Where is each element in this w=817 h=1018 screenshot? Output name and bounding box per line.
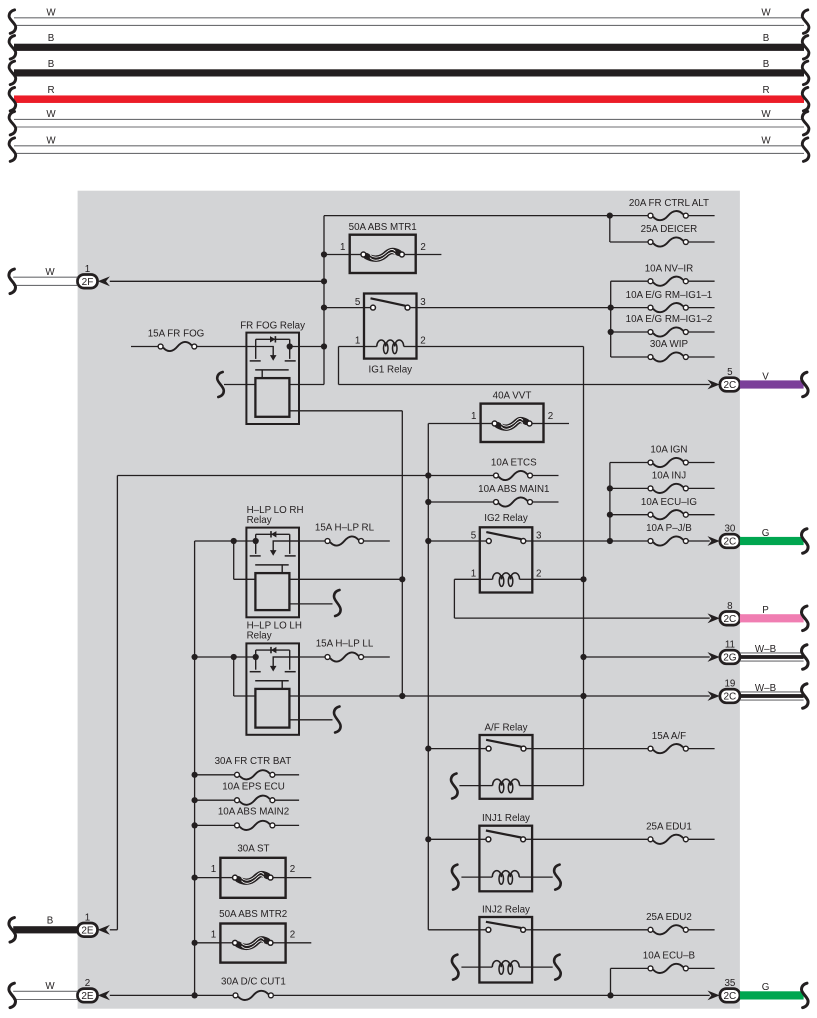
svg-text:B: B bbox=[47, 916, 54, 927]
svg-text:2C: 2C bbox=[724, 614, 737, 625]
svg-text:W–B: W–B bbox=[755, 683, 777, 694]
svg-text:15A FR FOG: 15A FR FOG bbox=[148, 329, 205, 340]
svg-text:R: R bbox=[762, 85, 769, 96]
svg-text:15A H–LP RL: 15A H–LP RL bbox=[315, 523, 375, 534]
svg-text:P: P bbox=[762, 605, 769, 616]
svg-text:50A ABS MTR2: 50A ABS MTR2 bbox=[219, 909, 287, 920]
svg-text:IG2 Relay: IG2 Relay bbox=[484, 513, 528, 524]
svg-text:30: 30 bbox=[724, 524, 735, 535]
svg-text:A/F Relay: A/F Relay bbox=[484, 722, 527, 733]
svg-text:W: W bbox=[761, 135, 771, 146]
svg-text:2: 2 bbox=[290, 929, 295, 940]
svg-text:W: W bbox=[45, 267, 55, 278]
svg-text:2F: 2F bbox=[82, 277, 94, 288]
svg-text:2C: 2C bbox=[724, 537, 737, 548]
svg-text:5: 5 bbox=[471, 531, 477, 542]
svg-text:10A P–J/B: 10A P–J/B bbox=[646, 523, 692, 534]
svg-text:Relay: Relay bbox=[247, 631, 272, 642]
svg-text:W: W bbox=[46, 135, 56, 146]
svg-text:2E: 2E bbox=[81, 991, 94, 1002]
svg-text:B: B bbox=[48, 33, 55, 44]
svg-text:V: V bbox=[762, 371, 769, 382]
svg-text:8: 8 bbox=[727, 601, 733, 612]
svg-text:1: 1 bbox=[211, 864, 216, 875]
svg-text:30A ST: 30A ST bbox=[237, 843, 269, 854]
svg-text:1: 1 bbox=[85, 264, 90, 275]
svg-text:B: B bbox=[763, 33, 770, 44]
svg-text:19: 19 bbox=[724, 679, 735, 690]
svg-text:W: W bbox=[45, 981, 55, 992]
svg-text:10A ECU–IG: 10A ECU–IG bbox=[641, 497, 697, 508]
svg-text:2: 2 bbox=[536, 569, 541, 580]
svg-text:W–B: W–B bbox=[755, 644, 777, 655]
svg-text:25A EDU2: 25A EDU2 bbox=[646, 912, 692, 923]
svg-text:10A EPS ECU: 10A EPS ECU bbox=[222, 781, 285, 792]
svg-text:2G: 2G bbox=[723, 653, 737, 664]
svg-text:30A FR CTR BAT: 30A FR CTR BAT bbox=[215, 756, 292, 767]
svg-text:G: G bbox=[762, 528, 770, 539]
svg-text:10A E/G RM–IG1–1: 10A E/G RM–IG1–1 bbox=[626, 290, 713, 301]
svg-text:W: W bbox=[761, 7, 771, 18]
svg-text:11: 11 bbox=[725, 640, 735, 651]
svg-text:R: R bbox=[47, 85, 54, 96]
svg-text:1: 1 bbox=[211, 929, 216, 940]
svg-text:G: G bbox=[762, 982, 770, 993]
svg-text:2: 2 bbox=[420, 242, 425, 253]
svg-text:15A A/F: 15A A/F bbox=[652, 731, 686, 742]
svg-text:10A ABS MAIN2: 10A ABS MAIN2 bbox=[218, 807, 289, 818]
svg-text:35: 35 bbox=[724, 978, 735, 989]
svg-text:10A NV–IR: 10A NV–IR bbox=[645, 263, 693, 274]
svg-text:5: 5 bbox=[355, 297, 361, 308]
svg-text:3: 3 bbox=[420, 297, 426, 308]
svg-text:10A IGN: 10A IGN bbox=[650, 445, 687, 456]
svg-text:1: 1 bbox=[471, 569, 476, 580]
svg-text:10A ECU–B: 10A ECU–B bbox=[643, 951, 696, 962]
svg-text:2: 2 bbox=[290, 864, 295, 875]
svg-text:B: B bbox=[48, 59, 55, 70]
svg-text:INJ1 Relay: INJ1 Relay bbox=[482, 813, 530, 824]
svg-text:1: 1 bbox=[355, 336, 360, 347]
svg-text:1: 1 bbox=[471, 411, 476, 422]
svg-text:B: B bbox=[763, 59, 770, 70]
svg-text:FR FOG Relay: FR FOG Relay bbox=[240, 321, 305, 332]
svg-text:2: 2 bbox=[85, 978, 90, 989]
svg-text:30A D/C CUT1: 30A D/C CUT1 bbox=[221, 976, 286, 987]
svg-text:40A VVT: 40A VVT bbox=[493, 390, 532, 401]
svg-text:IG1 Relay: IG1 Relay bbox=[369, 365, 413, 376]
svg-text:25A DEICER: 25A DEICER bbox=[641, 224, 698, 235]
svg-text:10A ETCS: 10A ETCS bbox=[491, 458, 537, 469]
svg-text:30A WIP: 30A WIP bbox=[650, 339, 689, 350]
svg-text:10A ABS MAIN1: 10A ABS MAIN1 bbox=[478, 484, 549, 495]
svg-text:10A E/G RM–IG1–2: 10A E/G RM–IG1–2 bbox=[626, 314, 713, 325]
svg-text:2C: 2C bbox=[724, 692, 737, 703]
svg-text:2: 2 bbox=[548, 411, 553, 422]
svg-text:20A FR CTRL ALT: 20A FR CTRL ALT bbox=[629, 198, 709, 209]
svg-text:10A INJ: 10A INJ bbox=[652, 471, 686, 482]
svg-text:W: W bbox=[46, 7, 56, 18]
svg-text:25A EDU1: 25A EDU1 bbox=[646, 822, 692, 833]
svg-text:50A ABS MTR1: 50A ABS MTR1 bbox=[349, 222, 417, 233]
svg-text:2C: 2C bbox=[724, 991, 737, 1002]
svg-text:1: 1 bbox=[340, 242, 345, 253]
svg-text:15A H–LP LL: 15A H–LP LL bbox=[316, 638, 374, 649]
svg-text:1: 1 bbox=[85, 913, 90, 924]
svg-text:2E: 2E bbox=[81, 925, 94, 936]
svg-text:2C: 2C bbox=[724, 380, 737, 391]
svg-text:INJ2 Relay: INJ2 Relay bbox=[482, 904, 530, 915]
svg-text:Relay: Relay bbox=[247, 515, 272, 526]
svg-text:3: 3 bbox=[536, 531, 542, 542]
svg-text:2: 2 bbox=[420, 336, 425, 347]
svg-text:5: 5 bbox=[727, 367, 733, 378]
svg-text:W: W bbox=[46, 109, 56, 120]
svg-text:W: W bbox=[761, 109, 771, 120]
